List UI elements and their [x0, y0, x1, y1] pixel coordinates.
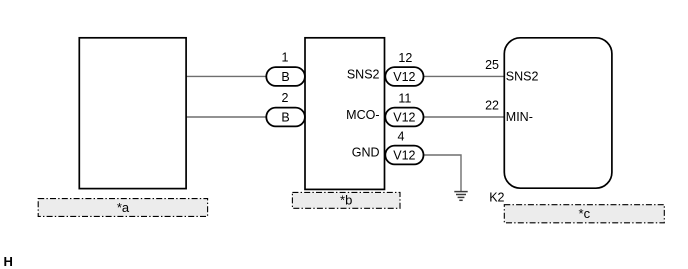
terminal oval B pin 1 [266, 67, 305, 86]
wire row2 left [186, 116, 270, 118]
wire row2 right [420, 116, 504, 118]
label box *a [38, 199, 207, 217]
label box *b [292, 192, 400, 208]
svg-text:11: 11 [398, 92, 411, 106]
svg-text:12: 12 [398, 51, 412, 65]
component box *a (left) [79, 38, 186, 189]
svg-text:22: 22 [485, 99, 499, 113]
svg-text:*a: *a [117, 200, 130, 215]
wire row1 right [420, 75, 504, 77]
svg-text:25: 25 [485, 58, 499, 72]
terminal oval V12 pin 11 [385, 108, 423, 127]
svg-text:MIN-: MIN- [506, 110, 533, 124]
svg-text:*b: *b [340, 192, 352, 207]
svg-text:SNS2: SNS2 [347, 68, 380, 82]
svg-text:4: 4 [398, 130, 405, 144]
svg-text:B: B [281, 110, 289, 124]
wire row1 left [186, 75, 270, 77]
terminal oval V12 pin 4 [385, 146, 423, 165]
svg-text:K2: K2 [489, 191, 504, 205]
svg-text:B: B [281, 70, 289, 84]
svg-text:1: 1 [282, 51, 289, 65]
svg-text:V12: V12 [393, 70, 415, 84]
svg-text:H: H [4, 254, 13, 269]
svg-text:V12: V12 [393, 148, 415, 162]
terminal oval V12 pin 12 [385, 67, 423, 86]
svg-text:2: 2 [282, 91, 289, 105]
svg-text:MCO-: MCO- [346, 108, 379, 122]
terminal oval B pin 2 [266, 108, 305, 127]
label box *c [504, 205, 664, 223]
component box K2 *c (right, rounded) [504, 38, 612, 188]
svg-text:GND: GND [352, 146, 380, 160]
component box *b (middle) [305, 38, 385, 190]
svg-text:SNS2: SNS2 [506, 69, 539, 83]
svg-text:V12: V12 [393, 110, 415, 124]
svg-text:*c: *c [579, 206, 591, 221]
wire GND to ground [420, 155, 461, 191]
ground symbol [454, 192, 467, 201]
